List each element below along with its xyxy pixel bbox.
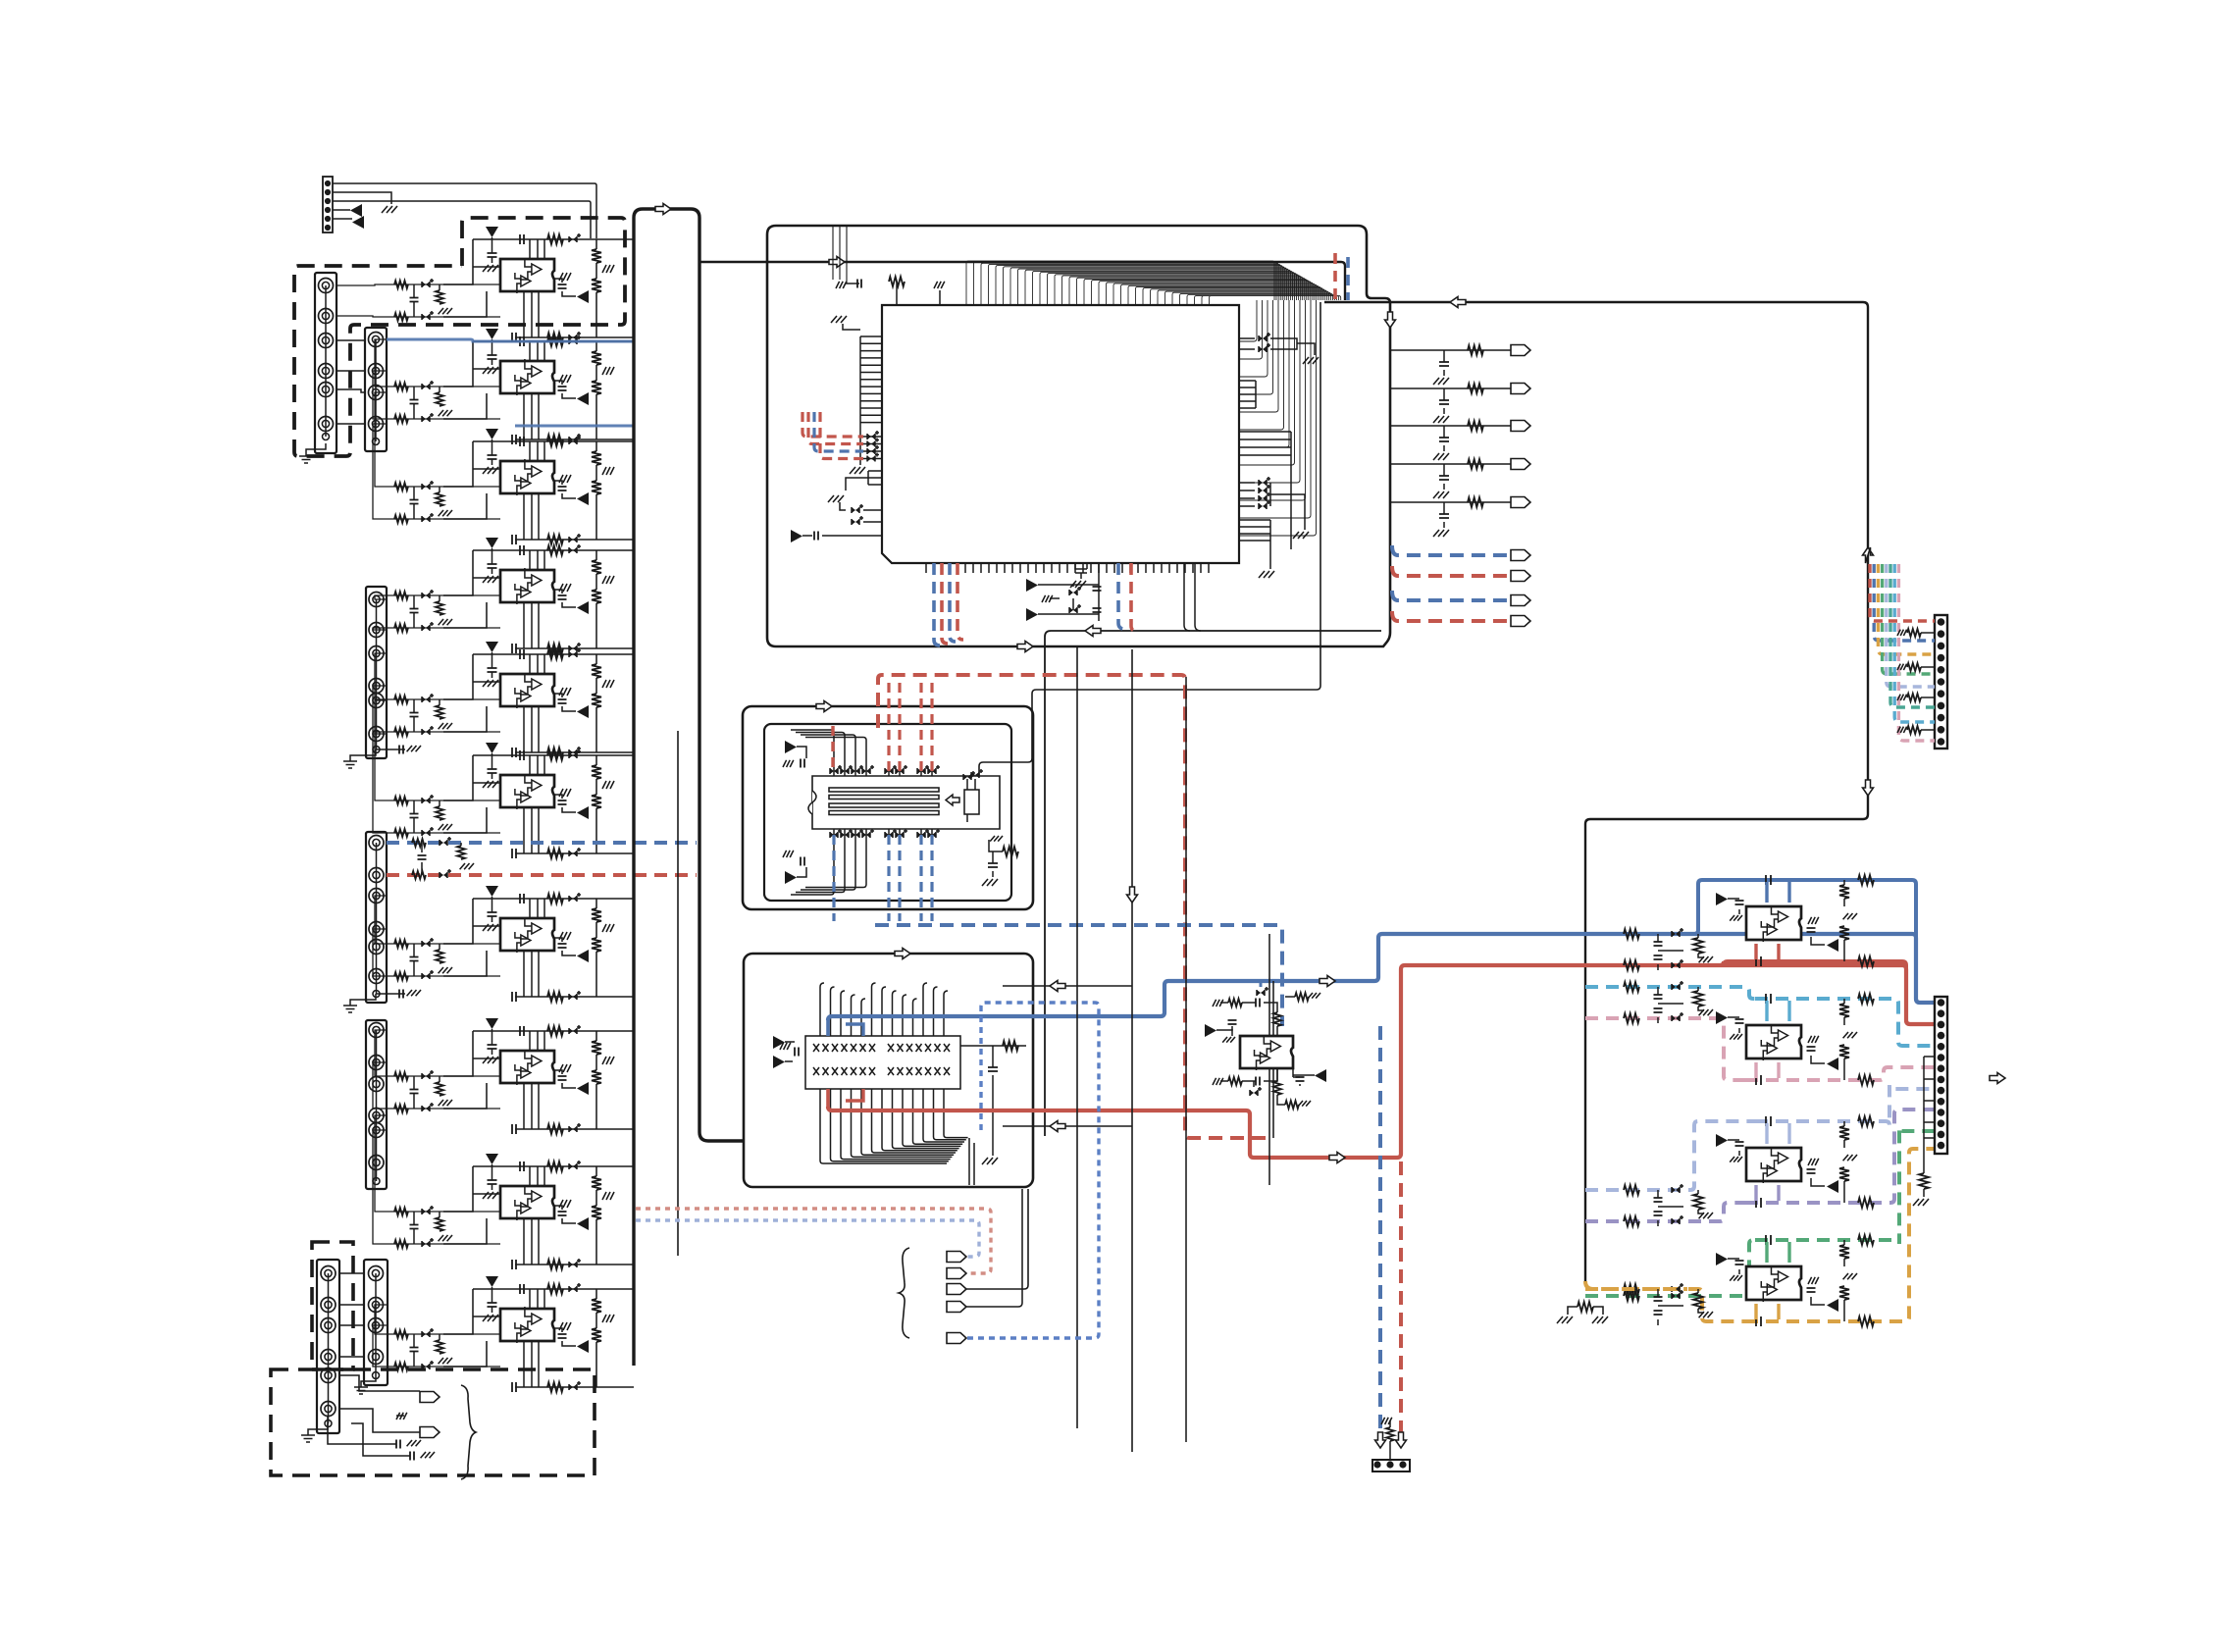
pin J3-4 bbox=[369, 679, 384, 694]
resistor U7-Rd2 bbox=[595, 922, 597, 938]
op-amp IC U8 bbox=[500, 1051, 554, 1083]
ground U5-GIII bbox=[559, 688, 571, 696]
ground U3-Gp bbox=[483, 467, 498, 474]
capacitor U33-C2 bbox=[1807, 1288, 1816, 1292]
wire blue dash v2 bbox=[950, 563, 956, 642]
arrow mid h1 bbox=[1050, 981, 1065, 992]
connector J2 bbox=[365, 328, 387, 451]
diode Din2 bbox=[422, 625, 430, 631]
pin J6-5 bbox=[321, 1368, 336, 1383]
ground U9-GIII bbox=[559, 1200, 571, 1208]
resistor U9-Rd2 bbox=[595, 1190, 597, 1206]
wire feed bbox=[375, 700, 388, 800]
resistor U6-Rbot bbox=[547, 849, 563, 858]
ground J3 bbox=[350, 749, 376, 761]
terminal P2 bbox=[420, 1427, 440, 1438]
wire colored row 0 bbox=[802, 412, 863, 437]
wire colored terminal 0 bbox=[1392, 545, 1511, 555]
wire box-top stubs bbox=[833, 227, 847, 284]
power flag bot2 bbox=[1026, 608, 1038, 621]
terminal T1 bbox=[947, 1252, 966, 1263]
resistor U3-Rd2 bbox=[595, 465, 597, 481]
resistor U2-Rbot bbox=[547, 435, 563, 444]
power flag U4-neg bbox=[577, 601, 589, 614]
wire to IC bbox=[443, 755, 500, 833]
capacitor U32-C2 bbox=[1807, 1169, 1816, 1173]
wire T3 bbox=[966, 1189, 1028, 1289]
resistor U30-Rb bbox=[1858, 956, 1874, 966]
wire feed bbox=[375, 1305, 388, 1334]
op-amp IC U1 bbox=[500, 259, 554, 291]
resistor J9-3 bbox=[1897, 695, 1907, 700]
pin J4-2 bbox=[369, 868, 384, 883]
pin J4-5 bbox=[369, 940, 384, 955]
power flag U23 bbox=[1205, 1024, 1216, 1037]
pins U21 top bbox=[833, 767, 835, 776]
wire RC row 2 bbox=[1390, 425, 1511, 427]
wire feed bbox=[375, 339, 388, 387]
power flag U9 bbox=[486, 1154, 498, 1164]
wire blue dashed L bbox=[387, 841, 697, 845]
diode Din1 bbox=[422, 484, 430, 490]
diode U6-Dtop bbox=[569, 752, 577, 758]
wires U21 top risers bbox=[791, 730, 866, 767]
ground Gin bbox=[439, 967, 452, 973]
wire input A bbox=[388, 943, 500, 945]
wire U33 stub4 bbox=[1777, 1304, 1780, 1319]
resistor U32-Rg bbox=[1693, 1194, 1703, 1210]
wire blue dash drop bbox=[1378, 1026, 1382, 1434]
wire red dash risers2 bbox=[889, 679, 932, 771]
resistor U9-Rd1 bbox=[595, 1166, 597, 1176]
arrow mid h2 bbox=[1050, 1121, 1065, 1132]
capacitor U7-Ctop bbox=[520, 894, 524, 903]
capacitor U31-C2 bbox=[1807, 1047, 1816, 1051]
terminal TR0 bbox=[1511, 345, 1530, 356]
capacitor J3g bbox=[376, 749, 405, 750]
ground Gin bbox=[439, 1358, 452, 1364]
wire red dash riser1 bbox=[831, 726, 834, 771]
resistor U2-Rd1 bbox=[595, 341, 597, 351]
terminal T2 bbox=[947, 1268, 966, 1279]
wire U31 in2 bbox=[1585, 1018, 1745, 1080]
capacitor U7-Cp bbox=[488, 912, 497, 916]
op-amp IC U7 bbox=[500, 918, 554, 951]
wire feed bbox=[375, 1115, 388, 1212]
op-amp U4 bbox=[473, 550, 634, 648]
brace mid bbox=[899, 1248, 909, 1338]
bottom collector 643 bbox=[1045, 631, 1381, 1136]
wire input A bbox=[388, 1333, 500, 1335]
resistor U23 tr bbox=[1285, 996, 1295, 998]
wire feed bbox=[373, 1062, 388, 1109]
op-amp U3 bbox=[473, 441, 634, 540]
pin J5-6 bbox=[369, 1156, 384, 1170]
resistor Rg bbox=[439, 487, 440, 492]
wire J0 pin4 bbox=[333, 209, 350, 211]
resistor Rg bbox=[439, 1076, 440, 1082]
wire feed bbox=[336, 316, 388, 317]
wire U32 rail-top out bbox=[1755, 1085, 1935, 1125]
capacitor U21 bot bbox=[801, 857, 804, 866]
capacitor U30-Cb bbox=[1756, 956, 1761, 966]
capacitor U9-Cr bbox=[558, 1212, 567, 1215]
pin J1-5 bbox=[319, 383, 334, 397]
wire red dash top right bbox=[1333, 253, 1337, 300]
wire U30 rail-top out bbox=[1755, 880, 1935, 1003]
diode U4-Dtop bbox=[569, 547, 577, 553]
power flag U8 bbox=[486, 1018, 498, 1029]
pin J5-2 bbox=[369, 1056, 384, 1070]
diode U23 top bbox=[1257, 990, 1265, 996]
connector J4 bbox=[366, 832, 387, 1003]
capacitor U22 bbox=[795, 1048, 799, 1057]
resistor U2-Rd2 bbox=[595, 365, 597, 381]
wires J9 colored bbox=[1870, 564, 1935, 621]
ground U7-GIII bbox=[559, 932, 571, 940]
arrow J10 bbox=[1990, 1073, 2005, 1084]
diode row 1 bbox=[867, 441, 875, 447]
resistor RR0 bbox=[1468, 345, 1483, 355]
resistor U4-Rd1 bbox=[595, 550, 597, 560]
wire input B bbox=[388, 832, 500, 834]
power flag U4 bbox=[486, 538, 498, 548]
capacitor U2-Cr bbox=[558, 387, 567, 390]
ground U32-Gd bbox=[1843, 1155, 1857, 1161]
capacitor D4a bbox=[396, 1440, 400, 1449]
resistor U31-Ri2 bbox=[1624, 1013, 1639, 1023]
diode Din1 bbox=[422, 798, 430, 803]
bottom pins U20 bbox=[926, 563, 1209, 573]
op-amp IC U32 bbox=[1746, 1148, 1801, 1181]
diode row 3 bbox=[867, 456, 875, 462]
power flag U9-neg bbox=[577, 1217, 589, 1230]
capacitor bottom U20 bbox=[1075, 563, 1087, 573]
ground U9-Gp bbox=[483, 1192, 498, 1199]
diode Din2 bbox=[422, 314, 430, 320]
connector J10 bottom bbox=[1935, 997, 1947, 1154]
wire input B bbox=[388, 418, 500, 420]
right pins g3 U20 bbox=[1239, 432, 1291, 549]
capacitor U5-Cbot bbox=[512, 748, 516, 757]
arrow U21 bbox=[946, 795, 959, 805]
capacitor U4-Cbot bbox=[512, 644, 516, 653]
pin J7-gnd bbox=[373, 1372, 380, 1379]
resistor U33-Rg bbox=[1693, 1293, 1703, 1309]
diode U10-Dbot bbox=[569, 1384, 577, 1390]
wire feed bbox=[375, 1030, 388, 1076]
ground Gin bbox=[439, 410, 452, 416]
ground low-left bbox=[828, 495, 844, 502]
ground Gin bbox=[439, 510, 452, 516]
diode U5-Dbot bbox=[569, 749, 577, 755]
wire input B bbox=[388, 518, 500, 520]
connector J9 top bbox=[1935, 615, 1947, 749]
capacitor CR4 bbox=[1443, 502, 1445, 514]
capacitor U23a bbox=[1228, 1020, 1237, 1024]
capacitor U5-Ctop bbox=[520, 649, 524, 659]
power flag U7-neg bbox=[577, 950, 589, 962]
pin J5-gnd bbox=[373, 1178, 380, 1185]
capacitor U1-Cr bbox=[558, 284, 567, 288]
resistor U23 bot bbox=[1228, 1077, 1242, 1085]
capacitor U31-Ci bbox=[1654, 995, 1663, 999]
capacitor U10-Cp bbox=[488, 1303, 497, 1307]
wire left pins U20 bbox=[860, 336, 882, 423]
ground U6-Gp bbox=[483, 781, 498, 788]
power flag U33-neg bbox=[1827, 1299, 1838, 1312]
wire feed bbox=[373, 1130, 388, 1244]
capacitor CR0 bbox=[1443, 350, 1445, 362]
resistor RR2 bbox=[1468, 421, 1483, 431]
pin J5-5 bbox=[369, 1123, 384, 1138]
resistor U33-Ri1 bbox=[1624, 1291, 1639, 1301]
capacitor U22 right bbox=[992, 1046, 994, 1067]
wire red dash v2 bbox=[957, 563, 963, 640]
group box M2 bbox=[744, 954, 1033, 1187]
diode U30-Di2 bbox=[1672, 962, 1680, 968]
diode Din1 bbox=[422, 593, 430, 598]
ground U6-Gd bbox=[602, 781, 614, 789]
capacitor Cin bbox=[410, 957, 419, 961]
resistor Rin2 bbox=[394, 515, 408, 523]
capacitor Cin bbox=[410, 1348, 419, 1352]
resistor Rin2 bbox=[394, 415, 408, 423]
capacitor bot1 bbox=[1093, 587, 1102, 591]
terminal TR4 bbox=[1511, 497, 1530, 508]
op-amp IC U2 bbox=[500, 361, 554, 393]
wire red dash v3 bbox=[1131, 563, 1136, 631]
wire feed bbox=[375, 392, 388, 487]
wire royal dotted bbox=[966, 1003, 1099, 1338]
op-amp IC U3 bbox=[500, 461, 554, 493]
ground U23 top bbox=[1213, 1000, 1223, 1007]
ground U4-Gd bbox=[602, 576, 614, 584]
diode U21a bbox=[963, 774, 971, 780]
capacitor U33-Cp bbox=[1735, 1261, 1744, 1265]
pin J0-6 bbox=[325, 225, 331, 231]
resistor U6-Rd2 bbox=[595, 779, 597, 795]
arrow blue bbox=[1319, 976, 1335, 987]
wires D4 bbox=[328, 1375, 420, 1456]
wire blue dash v1 bbox=[934, 563, 940, 645]
group box M inner bbox=[764, 724, 1011, 901]
wire U33 rail-bot out bbox=[1745, 1149, 1935, 1321]
IC U21 electronic volume bbox=[812, 776, 1000, 829]
wire black drops right bbox=[1184, 563, 1201, 631]
capacitor J4g bbox=[376, 993, 405, 995]
ground U4-Gp bbox=[483, 576, 498, 583]
resistor RrL bbox=[412, 871, 426, 879]
resistor U4-Rbot bbox=[547, 644, 563, 653]
ground U2-Gp bbox=[483, 367, 498, 374]
capacitor Cin bbox=[410, 500, 419, 504]
power flag U6-neg bbox=[577, 806, 589, 819]
terminal T3 bbox=[947, 1284, 966, 1295]
wire U30 rail-bot out bbox=[1745, 961, 1935, 1024]
capacitor D4b bbox=[410, 1452, 414, 1461]
wire U33 stub3 bbox=[1754, 1304, 1757, 1319]
diode U21b bbox=[971, 772, 979, 778]
wire right nest U20 bbox=[1239, 300, 1317, 536]
resistor U1-Rd1 bbox=[595, 239, 597, 249]
power flag U6 bbox=[486, 743, 498, 753]
terminal P1 bbox=[420, 1392, 440, 1403]
resistor U5-Rtop bbox=[547, 649, 563, 659]
diode U4-Dbot bbox=[569, 645, 577, 651]
wire input B bbox=[388, 316, 500, 318]
wire input A bbox=[388, 386, 500, 387]
wire input B bbox=[388, 1108, 500, 1110]
ground U10-Gd bbox=[602, 1315, 614, 1322]
wire red dash loop bbox=[878, 675, 1268, 1138]
bus vertical C bbox=[677, 731, 679, 1256]
pin J1-2 bbox=[319, 309, 334, 324]
wire to IC bbox=[443, 441, 500, 519]
wire to IC bbox=[443, 899, 500, 976]
power flag U3-neg bbox=[577, 492, 589, 505]
wire feed bbox=[373, 929, 388, 976]
op-amp IC U30 bbox=[1746, 906, 1801, 940]
wire input A bbox=[388, 1211, 500, 1213]
arrow right2 bbox=[1863, 547, 1874, 563]
pin J6-1 bbox=[321, 1266, 336, 1281]
power flag J0-a bbox=[350, 204, 362, 217]
wire feed bbox=[375, 896, 388, 944]
resistor U23 botv bbox=[1273, 1081, 1281, 1095]
capacitor U30-Ci bbox=[1654, 942, 1663, 946]
ground Gin bbox=[439, 1100, 452, 1106]
wire feed bbox=[375, 595, 388, 599]
power flag U31-neg bbox=[1827, 1058, 1838, 1070]
capacitor U5-Cr bbox=[558, 699, 567, 703]
wire feed bbox=[373, 734, 388, 833]
diode U10-Dtop bbox=[569, 1286, 577, 1292]
capacitor U8-Cp bbox=[488, 1045, 497, 1049]
pin J3-2 bbox=[369, 623, 384, 638]
resistor U8-Rtop bbox=[547, 1026, 563, 1036]
resistor Rin1 bbox=[394, 797, 408, 804]
power flag U22a bbox=[773, 1036, 785, 1049]
pin J3-6 bbox=[369, 727, 384, 742]
wire input B bbox=[388, 975, 500, 977]
arrow box bottom bbox=[1017, 642, 1033, 652]
resistor U7-Rtop bbox=[547, 894, 563, 903]
wire orange from bus corner bbox=[1585, 1281, 1687, 1289]
pin J6-2 bbox=[321, 1298, 336, 1313]
pin J5-1 bbox=[369, 1023, 384, 1038]
wire U32 in1 bbox=[1585, 1121, 1755, 1190]
power flag U8-neg bbox=[577, 1082, 589, 1095]
diode U7-Dtop bbox=[569, 896, 577, 902]
resistor U6-Rtop bbox=[547, 750, 563, 760]
right pins g4 U20 bbox=[1239, 483, 1255, 506]
power flag U21 bot bbox=[785, 871, 797, 884]
pin J4-gnd bbox=[373, 991, 380, 998]
wire J1-J2 ties bbox=[336, 340, 365, 424]
wire feed bbox=[373, 424, 388, 519]
terminal TC0 bbox=[1511, 550, 1530, 561]
power flag U2-neg bbox=[577, 392, 589, 405]
pin J2-gnd bbox=[373, 439, 380, 445]
capacitor U21 top bbox=[801, 759, 804, 768]
connector J7 bbox=[364, 1260, 388, 1385]
diode Din2 bbox=[422, 1241, 430, 1247]
resistor top U20 bbox=[889, 277, 905, 286]
IC U22 switch array bbox=[805, 1036, 960, 1089]
resistor U31-Ri1 bbox=[1624, 982, 1639, 992]
resistor U1-Rtop bbox=[547, 234, 563, 244]
resistor U4-Rd2 bbox=[595, 574, 597, 590]
power flag U21 top bbox=[785, 741, 797, 753]
terminal TR1 bbox=[1511, 384, 1530, 394]
pin J6-3 bbox=[321, 1318, 336, 1333]
resistor Rg bbox=[439, 800, 440, 806]
power flag U22b bbox=[773, 1056, 785, 1068]
pin J3-1 bbox=[369, 593, 384, 607]
ground left-pins U20 bbox=[850, 467, 865, 474]
diode Din2 bbox=[422, 830, 430, 836]
wire U31 in1 bbox=[1585, 987, 1755, 999]
power flag U31 bbox=[1716, 1011, 1728, 1024]
arrow top feed bbox=[829, 257, 845, 268]
op-amp U8 bbox=[473, 1031, 634, 1129]
wire U31 stub3 bbox=[1754, 1062, 1757, 1078]
resistor U5-Rd2 bbox=[595, 678, 597, 694]
wire J0 pin5 bbox=[333, 218, 352, 220]
diode U7-Dbot bbox=[569, 994, 577, 1000]
capacitor U9-Cbot bbox=[512, 1260, 516, 1269]
capacitor U23 r bbox=[1292, 1068, 1294, 1077]
wire red dotted pair bbox=[636, 1209, 991, 1273]
power flag U32-neg bbox=[1827, 1180, 1838, 1193]
capacitor U30-C2 bbox=[1807, 928, 1816, 932]
resistor U30-Rg bbox=[1693, 938, 1703, 954]
wire blue J2 bbox=[387, 339, 634, 426]
capacitor U7-Cr bbox=[558, 944, 567, 948]
diode Din2 bbox=[422, 1364, 430, 1369]
ground U3-GIII bbox=[559, 475, 571, 483]
wire colored row 2 bbox=[814, 412, 863, 451]
wire top feed bbox=[699, 262, 1345, 300]
resistor U8-Rd2 bbox=[595, 1055, 597, 1070]
ground U30-G2 bbox=[1808, 917, 1819, 924]
wire J6-J7 ties bbox=[339, 1273, 364, 1357]
wire feed bbox=[373, 628, 388, 630]
wire feed bbox=[373, 1325, 388, 1367]
resistor Rg bbox=[439, 1334, 440, 1340]
diode Din1 bbox=[422, 1073, 430, 1079]
IC U20 main processor bbox=[882, 305, 1239, 563]
op-amp U7 bbox=[473, 899, 634, 997]
wire U30 stub1 bbox=[1765, 882, 1768, 903]
wire input B bbox=[388, 731, 500, 733]
wire U33 rail-top out bbox=[1755, 1127, 1935, 1244]
wire RC row 1 bbox=[1390, 387, 1511, 389]
resistor Rin1 bbox=[394, 1208, 408, 1215]
pin J0-3 bbox=[325, 198, 331, 204]
capacitor U6-Cr bbox=[558, 800, 567, 804]
wire input A bbox=[388, 486, 500, 488]
diode Din1 bbox=[422, 697, 430, 702]
wire RC row 0 bbox=[1390, 349, 1511, 351]
wire red U22 stub bbox=[826, 1089, 830, 1109]
power flag U1-neg bbox=[577, 290, 589, 303]
resistor RR3 bbox=[1468, 459, 1483, 469]
op-amp IC U33 bbox=[1746, 1266, 1801, 1300]
op-amp U5 bbox=[473, 654, 634, 752]
wire input A bbox=[388, 284, 500, 285]
